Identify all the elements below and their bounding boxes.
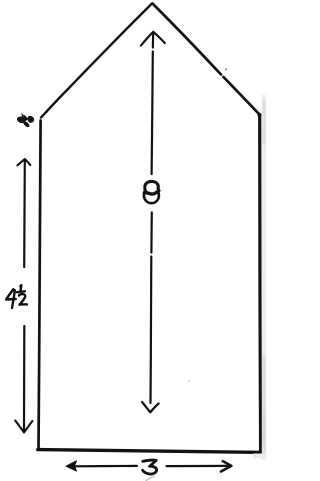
right edge scan shadow bbox=[253, 95, 266, 460]
dimension 3: label "3" bbox=[143, 460, 157, 474]
dimension 6: upper arrowhead bbox=[141, 32, 165, 46]
pentagon outline: left wall bbox=[39, 121, 41, 450]
dimension 3: left line bbox=[75, 465, 138, 468]
dimension 6: label "6" bbox=[144, 181, 159, 203]
pentagon outline: right roof diagonal bbox=[153, 4, 260, 115]
pentagon outline: bottom edge bbox=[38, 450, 261, 453]
dimension 6: lower arrowhead bbox=[142, 402, 159, 412]
dimension 3: right arrowhead bbox=[221, 461, 231, 471]
right corner ink knot bbox=[257, 113, 261, 117]
faint interior speck bbox=[188, 380, 190, 382]
dimension 4.5: upper arrowhead bbox=[17, 159, 30, 165]
speck near right diagonal bbox=[225, 68, 227, 70]
smudge below label 3 bbox=[146, 477, 154, 481]
dimension 3: right line bbox=[167, 465, 229, 467]
dimension 4.5: label "4 1/2" bbox=[6, 285, 27, 308]
dimension 3: left arrowhead (filled) bbox=[66, 461, 77, 471]
pentagon outline: right wall bbox=[258, 115, 262, 451]
pentagon outline: left roof diagonal bbox=[41, 4, 152, 118]
dimension 4.5: vertical arrow line bbox=[23, 161, 26, 268]
dimension 4.5: lower arrowhead bbox=[15, 421, 32, 433]
dimension 6: vertical arrow line bbox=[152, 34, 154, 175]
ink blot near left corner bbox=[17, 113, 34, 127]
